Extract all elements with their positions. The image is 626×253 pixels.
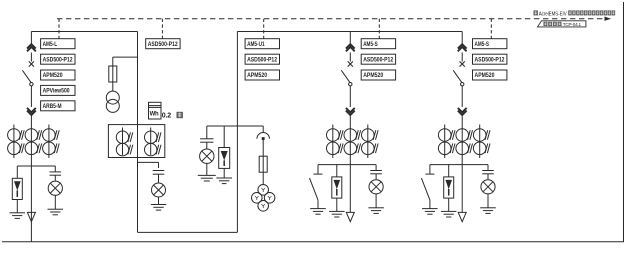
- svg-text:APM520: APM520: [363, 72, 383, 79]
- svg-text:APView500: APView500: [43, 88, 70, 95]
- svg-text:Wh: Wh: [150, 112, 159, 118]
- svg-text:AcrelEMS-EIV: AcrelEMS-EIV: [539, 11, 567, 17]
- svg-text:AM5-S: AM5-S: [363, 41, 378, 48]
- svg-text:AM5-S: AM5-S: [475, 41, 490, 48]
- svg-text:0.2: 0.2: [162, 113, 171, 120]
- svg-text:TCP-04.1: TCP-04.1: [563, 22, 582, 27]
- svg-text:ASD500-P12: ASD500-P12: [247, 56, 277, 63]
- svg-text:APM520: APM520: [43, 72, 63, 79]
- svg-text:ASD500-P12: ASD500-P12: [148, 41, 178, 48]
- svg-text:ASD500-P12: ASD500-P12: [475, 56, 505, 63]
- svg-text:AM5-L: AM5-L: [43, 41, 58, 48]
- svg-text:AM5-U1: AM5-U1: [247, 41, 265, 48]
- svg-text:ARB5-M: ARB5-M: [43, 103, 62, 110]
- svg-text:ASD500-P12: ASD500-P12: [43, 56, 73, 63]
- svg-text:APM520: APM520: [247, 72, 267, 79]
- svg-text:APM520: APM520: [475, 72, 495, 79]
- svg-text:ASD500-P12: ASD500-P12: [363, 56, 393, 63]
